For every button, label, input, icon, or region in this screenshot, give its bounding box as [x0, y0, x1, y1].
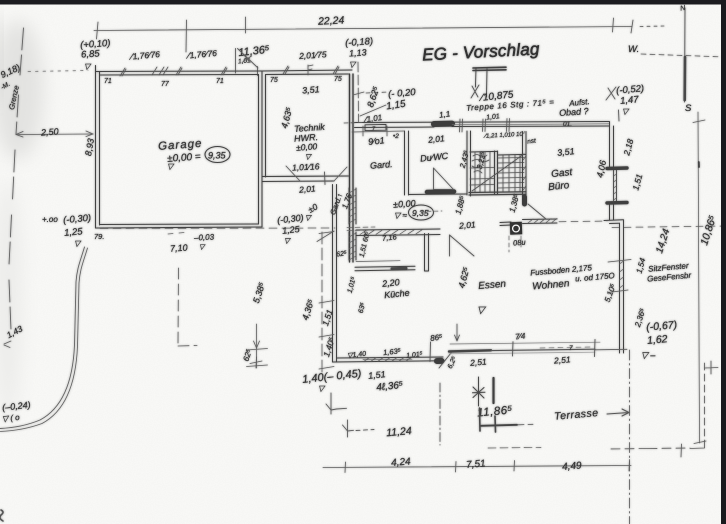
- wall tick marks top: [120, 68, 126, 76]
- gast bottom wall double w hatch: [523, 219, 558, 224]
- entry swing diagonal: [317, 231, 334, 242]
- svg-text:Gast: Gast: [551, 167, 574, 180]
- kitchen counter south double: [355, 266, 415, 271]
- bottom wall door pier: [437, 358, 442, 364]
- tiny dashes left of -0,03: [168, 233, 184, 235]
- dashes below fireplace: [509, 236, 521, 252]
- svg-text:Obad ?: Obad ?: [559, 106, 589, 118]
- garage left wall double: [96, 66, 100, 229]
- svg-text:2,50: 2,50: [40, 126, 59, 137]
- wardrobe strip upper: [349, 188, 356, 224]
- east window mullion hatch: [614, 174, 617, 200]
- svg-text:▽ ( o: ▽ ( o: [2, 413, 21, 424]
- technik top wall double: [262, 70, 352, 75]
- svg-text:9,35: 9,35: [412, 208, 429, 218]
- svg-text:7,16: 7,16: [382, 232, 398, 243]
- svg-text:▽ –: ▽ –: [641, 350, 656, 360]
- svg-text:1,62: 1,62: [647, 333, 669, 347]
- entry tick: [324, 172, 327, 185]
- terrace west dashdot: [439, 383, 441, 445]
- tick x97: [97, 22, 99, 39]
- technik right wall double: [350, 74, 354, 262]
- svg-text:7,10: 7,10: [170, 242, 188, 253]
- svg-text:–0,03: –0,03: [193, 232, 215, 242]
- scanner right black bar: [721, 0, 726, 524]
- svg-text:Gard.: Gard.: [370, 159, 393, 171]
- right dim vertical: [698, 112, 700, 443]
- bottom wall right dark sill: [449, 350, 491, 351]
- T mark thick bars: [473, 67, 506, 70]
- arrow mark upper: [326, 393, 347, 414]
- svg-text:71: 71: [216, 78, 224, 85]
- dim 2,50 line with arrows: [16, 131, 93, 137]
- svg-text:1,01∕16: 1,01∕16: [292, 161, 320, 172]
- window sill line: [452, 123, 609, 126]
- underline bar 11,865: [481, 425, 517, 426]
- stair walk line diagonal: [472, 154, 524, 191]
- svg-text:79.: 79.: [94, 232, 104, 241]
- svg-text:7: 7: [569, 345, 573, 352]
- bottom wall ticks: [430, 340, 595, 362]
- gast bottom hatch: [528, 218, 557, 223]
- stair treads right flight verticals: [503, 155, 520, 192]
- svg-text:▽ ≈: ▽ ≈: [394, 211, 407, 220]
- tick x186 long: [185, 20, 188, 52]
- star mark with pole: [473, 377, 486, 406]
- kitchen shelf line above: [356, 260, 400, 263]
- terrace main dashdot vertical: [629, 350, 631, 524]
- fireplace circle: [513, 225, 520, 232]
- stair bottom double line: [469, 192, 526, 195]
- dim line x322: [321, 232, 323, 372]
- stair top landing line: [470, 151, 526, 155]
- gast door swing: [528, 204, 546, 219]
- east wall hatch lower: [620, 261, 624, 288]
- svg-text:1,13: 1,13: [349, 47, 367, 58]
- svg-text:6,85: 6,85: [81, 48, 101, 60]
- stair treads left flight: [475, 152, 490, 192]
- hall west wall double: [333, 185, 337, 363]
- NE corner tick: [618, 110, 621, 121]
- east wall ticks lower: [608, 260, 631, 293]
- F mark: [308, 65, 313, 75]
- boundary slanted line (Grenze): [9, 28, 24, 330]
- bottom wall right section top line: [450, 342, 600, 344]
- dashes left of 1,885: [420, 210, 442, 213]
- N-S survey line: [684, 8, 687, 102]
- svg-text:86⁵: 86⁵: [430, 333, 444, 343]
- svg-text:3,51: 3,51: [557, 146, 575, 158]
- bottom wall left section double: [333, 357, 444, 362]
- svg-text:1,47: 1,47: [620, 94, 640, 107]
- dark wall pier: [434, 121, 452, 127]
- oval 9,35 hall: [409, 205, 434, 220]
- X mark at dim: [606, 87, 616, 100]
- east window mullion: [614, 170, 617, 201]
- X mark stairs dim: [471, 85, 479, 98]
- entry door frame: [365, 124, 386, 130]
- window mullion ticks: [460, 119, 510, 133]
- east window bottom cap: [607, 201, 627, 205]
- ticks crossing: [319, 232, 334, 370]
- svg-text:01.: 01.: [563, 121, 572, 128]
- svg-text:4,49: 4,49: [562, 460, 583, 473]
- svg-text:9,35: 9,35: [208, 151, 227, 161]
- dark vertical bar: [492, 378, 494, 403]
- W dashes: [641, 54, 726, 57]
- east wall lower double: [620, 220, 624, 353]
- terrace NE corner: [705, 361, 719, 374]
- dashes gast bottom to east: [559, 221, 726, 228]
- dashed line below garage: [100, 227, 335, 230]
- svg-text:S: S: [685, 103, 692, 114]
- du/wc bottom dark bar: [427, 189, 454, 194]
- svg-text:1,01: 1,01: [486, 113, 500, 121]
- du/wc bottom wall: [409, 193, 468, 196]
- svg-text:3,51: 3,51: [302, 84, 320, 95]
- stair treads left flight horizontals: [470, 168, 494, 186]
- tick x246 long: [245, 17, 247, 33]
- scribble bottom-left edge: [0, 510, 3, 521]
- driveway curb curve (double): [0, 247, 85, 429]
- svg-text:62⁵: 62⁵: [336, 250, 348, 258]
- garage door diagonal + ticks: [236, 49, 259, 76]
- dim arrow at door: [455, 324, 460, 341]
- svg-text:2,51: 2,51: [553, 354, 572, 366]
- kitchen north wall double: [356, 229, 440, 236]
- svg-text:75: 75: [270, 77, 278, 84]
- left small tick: [250, 357, 262, 368]
- dashes to right at y93: [366, 92, 389, 93]
- dashes right of lower arrow: [356, 430, 374, 431]
- dashed drive line x178: [178, 268, 197, 346]
- stair treads right flight horizontals: [498, 158, 524, 189]
- wardrobe strip lower: [349, 232, 356, 260]
- tick at y93: [353, 92, 364, 95]
- svg-text:7,51: 7,51: [466, 458, 486, 471]
- door triangle du/wc: [434, 168, 454, 190]
- dim line 22,24: [94, 27, 632, 31]
- verticals below: [476, 68, 488, 97]
- boundary end mark z: [4, 341, 11, 348]
- svg-text:1,25: 1,25: [282, 224, 301, 236]
- scanner top black bar: [0, 0, 726, 5]
- svg-text:2,01: 2,01: [427, 133, 446, 145]
- small blob: [698, 162, 700, 167]
- wardrobe hatch lower: [349, 233, 356, 260]
- kitchen tall unit: [425, 234, 429, 272]
- svg-text:1,63⁵: 1,63⁵: [383, 346, 402, 357]
- dim line: [323, 466, 631, 468]
- lower verticals: [480, 408, 496, 432]
- kitchen counter dark right end: [392, 267, 406, 271]
- east jog horizontal: [604, 220, 623, 224]
- svg-text:W.: W.: [628, 44, 639, 55]
- garage bottom wall double: [96, 224, 263, 228]
- kitchen door swing: [450, 235, 475, 256]
- east wall mid double: [610, 205, 614, 221]
- svg-text:7⁄4: 7⁄4: [515, 331, 527, 341]
- terrace bottom dashes: [610, 448, 690, 449]
- wardrobe hatch upper: [349, 189, 356, 223]
- garage top wall double: [96, 71, 263, 75]
- oval 9,35: [205, 147, 230, 163]
- stair right wall hatch: [523, 156, 526, 190]
- east wall upper double: [610, 122, 614, 168]
- svg-text:2,51: 2,51: [469, 356, 488, 368]
- fireplace wall stub: [500, 222, 511, 226]
- svg-text:1,25: 1,25: [64, 226, 84, 239]
- window hatch left section: [364, 358, 411, 362]
- stair center rail: [495, 151, 498, 194]
- terrace arrow: [607, 409, 629, 416]
- dashed line boundary to garage corner: [28, 71, 88, 72]
- scribble upper left flight: [472, 155, 489, 174]
- svg-text:2,01: 2,01: [298, 183, 317, 195]
- tick x613: [613, 18, 614, 32]
- du/wc east wall double: [467, 131, 471, 196]
- gast west wall double: [523, 132, 527, 198]
- svg-text:1,1: 1,1: [439, 109, 451, 119]
- svg-text:08u: 08u: [513, 237, 527, 247]
- slanted strike line: [360, 105, 386, 116]
- small arrow dim left: [247, 324, 268, 368]
- svg-text:•2: •2: [393, 133, 399, 140]
- door swing marks bottom technik: [286, 166, 347, 181]
- corridor dim ticks above hall: [344, 123, 404, 137]
- gast west wall pier dark: [522, 197, 527, 204]
- svg-text:11,24: 11,24: [386, 425, 413, 439]
- dashes right of line: [640, 25, 664, 28]
- technik bottom wall double: [262, 176, 349, 182]
- ticks: [345, 460, 630, 473]
- terrace east dashed: [704, 363, 706, 440]
- svg-text:4,24: 4,24: [391, 456, 412, 469]
- svg-text:1,51: 1,51: [368, 369, 386, 381]
- gap dashes: [347, 227, 375, 231]
- du/wc west wall double: [405, 131, 409, 195]
- tick on bottom: [680, 444, 683, 457]
- vertical dim line x358: [357, 62, 360, 122]
- svg-text:2,20: 2,20: [381, 277, 400, 289]
- door swing diagonal: [439, 353, 451, 368]
- svg-text:77: 77: [161, 81, 170, 88]
- ticks right: [693, 120, 706, 444]
- svg-text:9∕o1: 9∕o1: [368, 135, 385, 147]
- svg-text:75: 75: [334, 76, 342, 83]
- technik left wall shared: [265, 75, 267, 178]
- top wall double line: [355, 122, 610, 128]
- svg-text:2,01∕75: 2,01∕75: [298, 49, 327, 61]
- east window top cap: [607, 166, 627, 170]
- fireplace dark box: [510, 222, 522, 235]
- kitchen north wall hatch: [360, 230, 422, 235]
- svg-text:71: 71: [104, 78, 112, 85]
- svg-text:±0,00: ±0,00: [296, 141, 318, 152]
- svg-text:Büro: Büro: [548, 180, 571, 193]
- svg-text:22,24: 22,24: [317, 14, 345, 27]
- terrace SE corner: [690, 440, 705, 449]
- svg-text:2,01: 2,01: [458, 219, 477, 231]
- svg-text:+.oo: +.oo: [42, 215, 58, 224]
- arrow mark lower: [343, 420, 354, 437]
- end tick x632: [631, 20, 633, 33]
- bottom wall right section dashed mid: [540, 347, 590, 348]
- technik top wall ticks: [283, 66, 289, 74]
- garage right wall double: [259, 71, 263, 227]
- window sill mid line left: [363, 358, 412, 361]
